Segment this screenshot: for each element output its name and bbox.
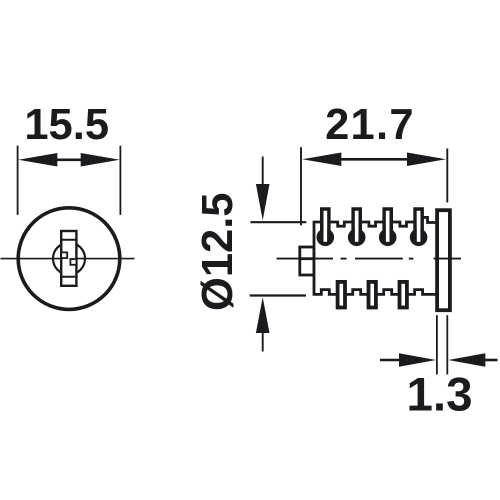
svg-text:21.7: 21.7	[325, 101, 415, 149]
svg-text:15.5: 15.5	[24, 101, 109, 149]
svg-text:Ø12.5: Ø12.5	[194, 193, 242, 312]
svg-text:1.3: 1.3	[406, 369, 472, 422]
